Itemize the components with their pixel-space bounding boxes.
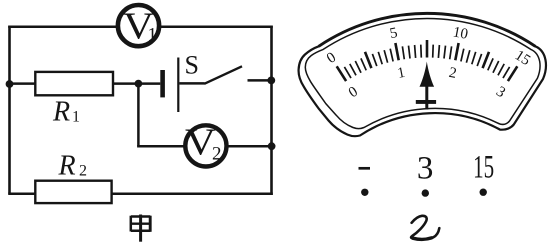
voltmeter U: V2 circle	[185, 125, 226, 166]
node: junction V2 / right rail	[268, 142, 276, 150]
terminal label: 15	[473, 149, 494, 185]
wire: middle rail from left rail to R1	[8, 82, 36, 85]
switch S: open blade	[204, 66, 242, 84]
wire: battery to switch pivot	[179, 82, 204, 85]
label V1	[123, 6, 157, 48]
node: junction on left rail	[6, 80, 14, 88]
terminal: negative (-)	[359, 167, 371, 170]
wire: V2 branch vertical from node	[137, 84, 140, 147]
svg-text:2: 2	[448, 65, 458, 82]
terminal dot: 15	[480, 189, 487, 196]
wire: left vertical rail	[8, 26, 11, 194]
meter body: inner outline	[305, 18, 540, 128]
wire: bottom rail from left rail to R2	[8, 193, 36, 196]
svg-text:2: 2	[79, 162, 87, 179]
scale label 15 (outer 0-15)	[512, 47, 533, 69]
svg-text:15: 15	[473, 149, 494, 185]
svg-text:R: R	[58, 150, 76, 181]
wire: right vertical rail	[270, 26, 273, 195]
wire: R1 to battery node	[113, 82, 140, 85]
label V2	[185, 121, 221, 164]
scale label 0 (outer 0-15)	[324, 49, 339, 67]
scale label 0 (inner 0-3)	[346, 84, 361, 102]
wire: bottom rail from R2 to right rail	[112, 193, 273, 196]
scale ticks: minor	[344, 45, 509, 79]
battery BT1: long (positive) plate	[177, 58, 179, 113]
resistor R2	[35, 181, 111, 203]
svg-text:1: 1	[396, 65, 406, 82]
wire: node to battery	[138, 82, 160, 85]
scale label 3 (inner 0-3)	[493, 84, 508, 102]
svg-text:15: 15	[512, 47, 533, 69]
svg-text:1: 1	[72, 109, 80, 126]
svg-text:1: 1	[147, 25, 157, 46]
wire: switch contact to right rail	[248, 79, 273, 82]
meter body: outer outline	[299, 13, 546, 136]
svg-text:0: 0	[324, 49, 339, 67]
voltmeter U: V1 circle	[118, 5, 159, 46]
wire: V2 branch horizontal to V2	[137, 145, 185, 148]
svg-text:10: 10	[451, 24, 469, 43]
label R1	[52, 97, 80, 128]
battery BT1: short (negative) plate	[160, 70, 165, 97]
label S	[184, 50, 198, 79]
terminal label: 3	[417, 150, 434, 186]
node: junction switch / right rail	[267, 77, 275, 85]
wire: top rail, left segment to V1	[8, 25, 118, 28]
label 甲 (figure a)	[131, 215, 151, 242]
node: junction R1 / battery / V2 branch	[135, 80, 143, 88]
wire: top rail, right segment from V1	[159, 25, 273, 28]
scale label 2 (inner 0-3)	[448, 65, 458, 82]
svg-text:R: R	[52, 97, 70, 128]
svg-text:2: 2	[212, 143, 222, 164]
wire: V2 to right rail	[227, 145, 273, 148]
svg-text:3: 3	[417, 150, 434, 186]
svg-text:S: S	[184, 50, 198, 79]
terminal dot: 3	[422, 189, 429, 196]
scale label 10 (outer 0-15)	[451, 24, 469, 43]
meter body: top arc emphasis	[319, 13, 536, 46]
scale label 5 (outer 0-15)	[388, 25, 398, 42]
scale ticks: major	[337, 40, 518, 81]
svg-text:3: 3	[493, 84, 508, 102]
terminal dot: negative	[361, 189, 368, 196]
svg-text:5: 5	[388, 25, 398, 42]
scale label 1 (inner 0-3)	[396, 65, 406, 82]
label 乙 (figure b)	[411, 216, 439, 240]
svg-text:0: 0	[346, 84, 361, 102]
label R2	[58, 150, 88, 181]
resistor R1	[35, 72, 113, 95]
needle: pointer of meter	[416, 62, 436, 110]
